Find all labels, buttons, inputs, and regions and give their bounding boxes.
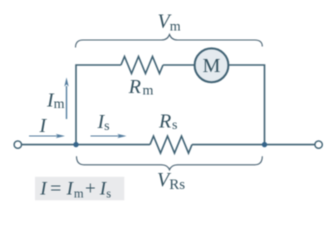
- wire top rail left segment: [76, 65, 121, 145]
- svg-text:M: M: [203, 55, 221, 77]
- wire top rail middle segment: [163, 64, 195, 66]
- resistor Rs: [150, 136, 192, 153]
- junction node left: [73, 142, 78, 147]
- arrow I: [29, 134, 65, 138]
- left terminal: [14, 141, 21, 148]
- svg-text:Is: Is: [97, 111, 110, 134]
- svg-text:Rm: Rm: [128, 76, 154, 99]
- svg-text:I: I: [39, 115, 48, 137]
- svg-text:=: =: [50, 178, 61, 199]
- svg-text:Rs: Rs: [158, 110, 177, 133]
- junction node right: [262, 142, 267, 147]
- svg-text:+: +: [85, 178, 96, 199]
- wire top rail right segment + right vertical: [228, 65, 264, 145]
- formula box: [35, 177, 124, 201]
- wire bottom rail left (terminal to Rs): [22, 144, 150, 146]
- arrow Is: [91, 134, 127, 138]
- arrow Im: [64, 77, 68, 119]
- svg-text:s: s: [106, 186, 111, 200]
- svg-text:VRs: VRs: [157, 169, 185, 193]
- meter M circle U1: [195, 48, 229, 82]
- svg-text:Vm: Vm: [158, 11, 181, 35]
- wire bottom rail right (Rs to right terminal): [192, 144, 315, 146]
- formula I = Im + Is: [39, 178, 111, 200]
- right terminal: [315, 141, 322, 148]
- resistor Rm: [121, 57, 163, 74]
- svg-text:m: m: [74, 186, 84, 200]
- brace VRs bottom: [77, 156, 263, 170]
- svg-text:Im: Im: [46, 89, 65, 112]
- brace Vm top: [76, 35, 263, 48]
